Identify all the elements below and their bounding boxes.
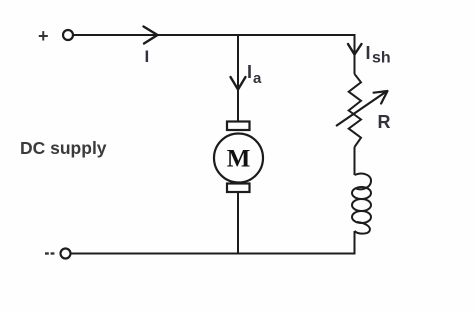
rheostat R zigzag (349, 74, 361, 147)
wire bottom horizontal (71, 253, 356, 255)
motor M brush bottom (227, 184, 250, 193)
svg-text:M: M (227, 145, 251, 172)
negative supply terminal (61, 249, 71, 259)
svg-text:sh: sh (372, 50, 391, 67)
svg-text:R: R (378, 112, 391, 132)
svg-text:DC supply: DC supply (20, 138, 107, 158)
wire between rheostat and coil (354, 147, 356, 175)
shunt field coil (355, 174, 372, 190)
svg-text:+: + (38, 26, 49, 46)
arrow current I (144, 27, 158, 44)
label - (negative terminal) (45, 252, 49, 254)
positive supply terminal (63, 30, 73, 40)
rheostat arrow (336, 91, 387, 126)
wire armature branch upper (237, 35, 239, 122)
svg-text:I: I (145, 47, 150, 66)
arrow current Ia (231, 77, 246, 90)
wire shunt branch bottom (354, 231, 356, 255)
svg-text:I: I (247, 62, 252, 82)
wire armature branch lower (237, 192, 239, 254)
motor M brush top (227, 122, 250, 131)
svg-text:a: a (253, 70, 262, 87)
wire shunt branch top (354, 34, 356, 74)
svg-text:I: I (366, 43, 371, 63)
arrow current Ish (348, 44, 362, 55)
wire top horizontal (74, 34, 355, 36)
motor M armature circle (214, 134, 263, 183)
